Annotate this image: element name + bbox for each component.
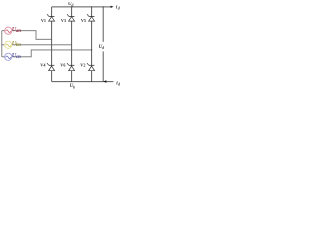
source Uc	[5, 53, 12, 60]
svg-text:V3: V3	[61, 18, 66, 23]
leg 3	[91, 7, 93, 82]
svg-text:b: b	[73, 85, 75, 89]
label Ud load	[98, 42, 107, 52]
svg-text:bn: bn	[16, 43, 21, 48]
top rail	[52, 6, 112, 8]
label ub bottom rail	[70, 84, 76, 89]
junction bottom rail leg3	[91, 81, 92, 82]
thyristor V4	[47, 63, 55, 71]
svg-text:V4: V4	[40, 63, 46, 68]
junction bottom rail leg2	[71, 81, 72, 82]
label V2	[80, 63, 85, 68]
thyristor V5	[87, 14, 95, 21]
label Ubn	[12, 41, 21, 48]
return arrow bottom	[103, 80, 106, 83]
thyristor V1	[47, 14, 55, 21]
wire phase b	[2, 44, 72, 46]
svg-text:V2: V2	[80, 63, 85, 68]
label Uan	[12, 27, 21, 34]
svg-text:V5: V5	[81, 18, 86, 23]
svg-text:cn: cn	[16, 55, 21, 60]
current arrow id top	[111, 6, 114, 8]
label V1	[41, 18, 46, 23]
label ud top rail	[68, 2, 74, 7]
node a junction	[51, 39, 52, 40]
source Ub	[5, 41, 12, 48]
svg-text:an: an	[16, 29, 21, 34]
leg 2	[71, 7, 73, 82]
svg-text:V1: V1	[41, 18, 46, 23]
svg-text:V6: V6	[60, 63, 65, 68]
label V5	[81, 18, 86, 23]
label V3	[61, 18, 66, 23]
thyristor V2	[87, 63, 95, 71]
neutral wire	[1, 31, 3, 57]
label id bottom right	[116, 80, 120, 86]
label V6	[60, 63, 65, 68]
label id top right	[116, 4, 120, 10]
load branch	[102, 7, 104, 82]
bottom rail	[52, 81, 114, 83]
thyristor V3	[67, 14, 75, 21]
svg-text:d: d	[118, 83, 120, 87]
junction top rail leg2	[71, 6, 72, 7]
junction top rail load	[103, 6, 104, 7]
thyristor V6	[67, 63, 75, 71]
svg-text:d: d	[102, 46, 104, 50]
source Ua	[5, 27, 12, 34]
label V4	[40, 63, 46, 68]
node b junction	[71, 44, 72, 45]
wire phase a	[2, 31, 52, 40]
label Ucn	[12, 53, 21, 60]
wire phase c	[2, 50, 92, 57]
leg 1	[51, 7, 53, 82]
junction top rail leg3	[91, 6, 92, 7]
svg-text:d: d	[118, 7, 120, 11]
node c junction	[91, 49, 92, 50]
